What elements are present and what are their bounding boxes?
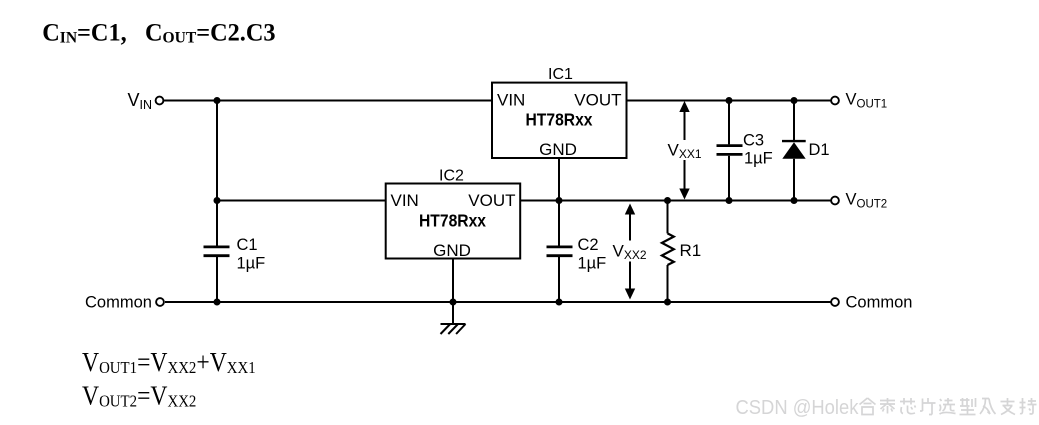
svg-text:C2: C2 — [578, 236, 599, 254]
wire IC2 VOUT pin to VOUT2 terminal — [520, 200, 831, 202]
svg-text:CIN=C1, COUT=C2.C3: CIN=C1, COUT=C2.C3 — [42, 19, 275, 46]
dimension arrow VXX1 — [665, 101, 705, 200]
formula VOUT2=VXX2 — [82, 381, 196, 411]
junction node IC1 GND / C2 at middle rail — [556, 197, 563, 204]
svg-text:GND: GND — [433, 241, 471, 260]
watermark pseudo glyph pian — [920, 398, 936, 415]
junction node C3 bottom — [726, 197, 733, 204]
svg-text:1µF: 1µF — [578, 254, 607, 272]
resistor R1 — [662, 201, 701, 303]
ground symbol — [441, 324, 466, 334]
capacitor C2 1uF — [547, 201, 607, 303]
svg-text:D1: D1 — [809, 141, 830, 159]
junction node C3 top — [726, 97, 733, 104]
watermark pseudo glyph chi — [1020, 398, 1037, 414]
svg-text:1µF: 1µF — [237, 254, 266, 272]
watermark pseudo glyph tai — [880, 398, 895, 414]
junction node D1 top — [791, 97, 798, 104]
formula VOUT1=VXX2+VXX1 — [82, 348, 256, 378]
wire VIN terminal to IC1 VIN pin — [164, 100, 492, 102]
terminal VOUT1 — [831, 91, 887, 111]
svg-text:IC1: IC1 — [548, 66, 573, 83]
svg-text:IC2: IC2 — [439, 167, 464, 184]
svg-text:CSDN @Holek: CSDN @Holek — [736, 397, 859, 419]
svg-text:VOUT: VOUT — [574, 90, 621, 109]
svg-text:C3: C3 — [743, 131, 764, 149]
wire left bus to IC2 VIN pin — [217, 200, 386, 202]
watermark pseudo glyph xuan — [940, 398, 956, 414]
wire IC1 VOUT pin to VOUT1 terminal — [627, 100, 832, 102]
watermark pseudo glyph zhi — [1001, 398, 1016, 415]
terminal VIN — [128, 90, 164, 112]
junction node C2 at common rail — [556, 299, 563, 306]
diode D1 — [782, 101, 830, 201]
junction node left bus at common rail — [214, 299, 221, 306]
capacitor C3 1uF — [717, 101, 773, 201]
terminal VOUT2 — [831, 191, 887, 211]
terminal Common left — [85, 294, 164, 312]
svg-text:VIN: VIN — [497, 90, 525, 109]
wire IC2 GND pin down to common rail and ground stub — [452, 259, 454, 324]
title formula CIN=C1, COUT=C2.C3 — [42, 19, 275, 46]
watermark CSDN @Holek — [736, 397, 859, 419]
wire common rail — [165, 301, 831, 303]
capacitor C1 1uF — [204, 236, 266, 272]
dimension arrow VXX2 — [610, 204, 650, 300]
IC U2 regulator HT78Rxx (IC2) — [386, 167, 521, 259]
svg-text:VIN: VIN — [391, 191, 419, 210]
junction node R1 top — [664, 197, 671, 204]
watermark pseudo glyph he — [860, 398, 876, 415]
watermark pseudo glyph xin — [900, 398, 916, 414]
svg-text:VOUT: VOUT — [468, 191, 515, 210]
junction node IC2 GND at common rail — [450, 299, 457, 306]
junction node left bus at middle rail — [214, 197, 221, 204]
svg-text:GND: GND — [539, 140, 577, 159]
watermark pseudo glyph ji — [980, 399, 996, 415]
junction node D1 bottom — [791, 197, 798, 204]
terminal Common right — [831, 294, 912, 312]
svg-text:Common: Common — [846, 294, 913, 312]
svg-text:HT78Rxx: HT78Rxx — [526, 110, 593, 130]
svg-text:R1: R1 — [680, 241, 702, 260]
junction node top of left bus — [214, 97, 221, 104]
svg-text:C1: C1 — [237, 236, 258, 254]
junction node R1 bottom — [664, 299, 671, 306]
svg-text:1µF: 1µF — [744, 150, 773, 168]
svg-text:Common: Common — [85, 294, 152, 312]
IC U1 regulator HT78Rxx (IC1) — [492, 66, 627, 159]
svg-text:HT78Rxx: HT78Rxx — [419, 210, 486, 230]
wire IC1 GND pin down to middle rail — [558, 158, 560, 201]
wire left vertical bus through C1 — [216, 101, 218, 303]
watermark pseudo glyph xing — [960, 398, 976, 415]
